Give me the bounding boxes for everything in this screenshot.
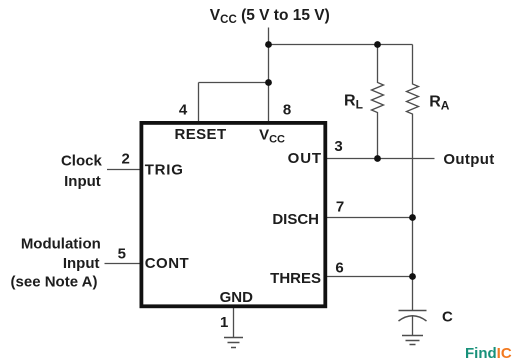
svg-text:Output: Output <box>443 151 494 168</box>
resistor RA <box>407 45 419 311</box>
svg-text:6: 6 <box>335 259 343 276</box>
svg-text:CONT: CONT <box>145 255 190 272</box>
svg-text:RESET: RESET <box>175 126 227 143</box>
node junction RL bottom / OUT <box>374 155 381 162</box>
svg-text:1: 1 <box>220 314 228 331</box>
node junction THRES / RA <box>409 273 416 280</box>
svg-text:Input: Input <box>64 173 101 190</box>
wire pin3 OUT to Output <box>327 158 435 160</box>
svg-text:FindIC: FindIC <box>465 345 512 360</box>
node junction pin4 branch <box>265 79 272 86</box>
ground pin1 symbol <box>224 338 243 348</box>
svg-text:4: 4 <box>179 102 188 119</box>
wire pin1 GND lead <box>233 308 235 337</box>
wire pin6 THRES lead <box>327 276 413 278</box>
node junction DISCH / RA <box>409 214 416 221</box>
svg-text:THRES: THRES <box>270 270 321 287</box>
node junction Vcc rail <box>265 41 272 48</box>
wire top horizontal rail <box>269 44 413 46</box>
svg-text:C: C <box>442 308 453 325</box>
svg-text:2: 2 <box>122 150 130 167</box>
wire pin4 branch horizontal <box>199 82 269 84</box>
svg-text:(see Note A): (see Note A) <box>11 273 98 290</box>
node junction RL top <box>374 41 381 48</box>
svg-text:8: 8 <box>283 102 291 119</box>
svg-text:5: 5 <box>118 245 126 262</box>
svg-text:TRIG: TRIG <box>145 162 184 179</box>
wire pin4 vertical to RESET <box>198 83 200 122</box>
wire pin5 CONT lead <box>105 263 141 265</box>
wire pin7 DISCH lead <box>327 217 413 219</box>
svg-text:Clock: Clock <box>61 152 103 169</box>
ground capacitor symbol <box>402 336 423 345</box>
wire capacitor to ground <box>412 317 414 336</box>
svg-text:OUT: OUT <box>288 150 322 167</box>
svg-text:Input: Input <box>63 255 100 272</box>
capacitor C plates <box>399 310 427 312</box>
svg-text:Modulation: Modulation <box>21 236 101 253</box>
svg-text:7: 7 <box>336 198 344 215</box>
svg-text:3: 3 <box>334 138 342 155</box>
IC U1 555 timer body <box>141 123 325 306</box>
resistor RL <box>372 45 384 159</box>
svg-text:DISCH: DISCH <box>272 211 319 228</box>
svg-text:GND: GND <box>220 289 254 306</box>
wire pin2 TRIG lead <box>107 169 141 171</box>
wire Vcc vertical drop <box>268 28 270 122</box>
